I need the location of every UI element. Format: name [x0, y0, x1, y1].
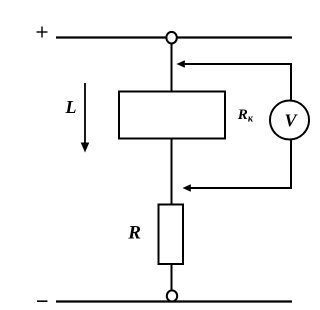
wire top node to Rk — [171, 44, 173, 93]
svg-text:Rк: Rк — [237, 107, 254, 125]
node bottom terminal — [167, 290, 177, 301]
svg-text:R: R — [127, 223, 141, 244]
svg-text:V: V — [285, 111, 299, 131]
wire R to bottom node — [171, 264, 173, 292]
resistor Rk box — [119, 92, 225, 139]
resistor R box — [159, 205, 184, 265]
wire Rk to R — [171, 139, 173, 206]
wire top bus — [56, 36, 292, 38]
wire bottom bus — [56, 300, 292, 302]
svg-text:L: L — [65, 97, 77, 117]
+ terminal label — [37, 27, 48, 38]
node top terminal — [166, 32, 176, 44]
&#8722; terminal label — [37, 300, 48, 302]
wire feedback V-top with arrow — [177, 60, 292, 100]
current arrow L — [81, 83, 90, 153]
voltmeter V — [270, 101, 309, 140]
wire feedback V-bottom with arrow — [183, 140, 292, 192]
